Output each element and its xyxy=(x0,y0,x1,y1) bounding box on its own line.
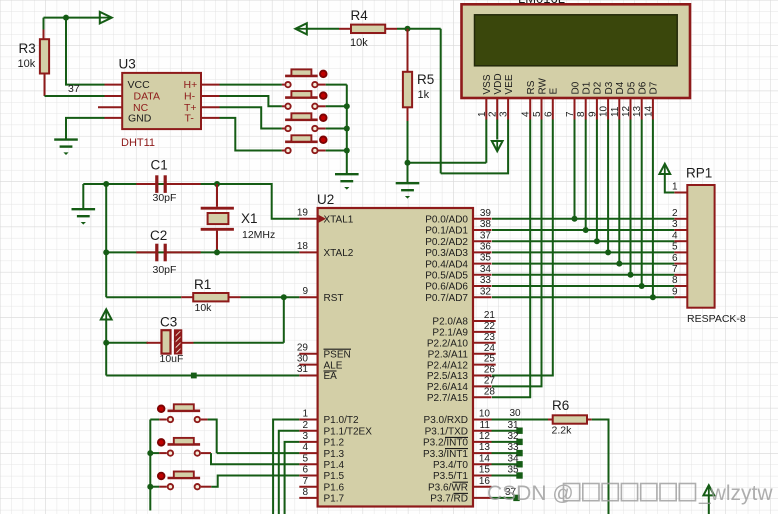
wire to ground stub xyxy=(82,184,84,209)
pushbutton lower 2 xyxy=(158,438,200,456)
pin LCD 14 xyxy=(652,98,654,120)
wire upper button 2 to bus xyxy=(326,105,347,107)
junction D2/P0.2 xyxy=(594,238,600,244)
svg-text:24: 24 xyxy=(484,343,496,354)
svg-text:21: 21 xyxy=(484,310,496,321)
svg-text:15: 15 xyxy=(479,465,491,476)
svg-text:P0.6/AD6: P0.6/AD6 xyxy=(425,282,468,293)
svg-text:P3.6/WR: P3.6/WR xyxy=(428,482,468,493)
pin U3 DATA xyxy=(105,95,123,97)
pin R3 bottom xyxy=(44,74,46,97)
svg-text:R1: R1 xyxy=(194,277,211,292)
wire power stub bottom right xyxy=(708,495,710,514)
pin U2 P0.1/AD1 xyxy=(473,229,492,231)
MCU U2 body xyxy=(318,208,473,507)
resistor pack RP1 RESPACK-8 body xyxy=(687,185,714,308)
pin U2 RST xyxy=(299,296,317,298)
pin U3 GND xyxy=(105,117,123,119)
pin U3 NC xyxy=(98,106,122,108)
svg-text:D2: D2 xyxy=(593,81,604,94)
junction top-left xyxy=(63,15,69,21)
svg-text:31: 31 xyxy=(508,420,520,431)
wire C2 row to XTAL2 xyxy=(106,251,299,253)
pin RP1 9 xyxy=(674,296,687,298)
power terminal VDD (down arrow) xyxy=(492,141,503,151)
power terminal (left arrow) at R4 xyxy=(295,23,306,34)
pin U2 P2.4/A12 xyxy=(473,364,496,366)
svg-text:RW: RW xyxy=(537,77,548,94)
wire LCD RS to U2 P2.7 xyxy=(492,120,530,398)
watermark CSDN xyxy=(487,482,773,505)
pushbutton upper 4 xyxy=(285,135,327,153)
pin lower button 3 left lead xyxy=(159,486,167,488)
wire P1.0 down off-page xyxy=(273,420,299,515)
svg-text:P3.4/T0: P3.4/T0 xyxy=(433,460,468,471)
svg-text:1: 1 xyxy=(302,409,308,420)
svg-text:R4: R4 xyxy=(351,8,369,23)
capacitor C2 xyxy=(136,244,200,262)
svg-text:25: 25 xyxy=(484,354,496,365)
svg-text:4: 4 xyxy=(302,442,308,453)
power terminal (up arrow) bottom right xyxy=(703,485,714,495)
pin U2 P3.1/TXD xyxy=(473,430,492,432)
pin U3 T+ xyxy=(201,106,220,108)
svg-text:R5: R5 xyxy=(417,72,434,87)
LCD LCD1 LM016L body xyxy=(462,4,691,98)
pin upper button 1 right lead xyxy=(318,84,326,86)
svg-text:VDD: VDD xyxy=(493,73,504,94)
svg-text:U3: U3 xyxy=(119,57,136,72)
wire RST riser to C3 xyxy=(283,297,285,343)
svg-text:P0.5/AD5: P0.5/AD5 xyxy=(425,271,468,282)
svg-text:32: 32 xyxy=(480,286,492,297)
wire R4 to LCD VEE net xyxy=(397,28,441,30)
svg-text:RST: RST xyxy=(324,293,344,304)
pin U2 P0.7/AD7 xyxy=(473,296,492,298)
pin LCD 8 xyxy=(585,98,587,120)
svg-text:P1.2: P1.2 xyxy=(324,438,345,449)
pin U2 P2.7/A15 xyxy=(473,396,492,398)
pin upper button 4 right lead xyxy=(318,150,326,152)
ground left of C1 xyxy=(72,209,96,216)
pin upper button 3 right lead xyxy=(318,128,326,130)
svg-text:26: 26 xyxy=(484,365,496,376)
pin RP1 2 xyxy=(674,218,687,220)
pin U2 P1.1/T2EX xyxy=(299,430,317,432)
pin RP1 7 xyxy=(674,274,687,276)
junction C2 row xyxy=(103,249,109,255)
wire VEE vertical to R4 xyxy=(440,29,442,174)
svg-text:P0.2/AD2: P0.2/AD2 xyxy=(425,237,468,248)
svg-text:P3.0/RXD: P3.0/RXD xyxy=(424,415,468,426)
junction D0/P0.0 xyxy=(572,216,578,222)
overline EA xyxy=(324,370,337,372)
svg-text:D6: D6 xyxy=(638,81,649,94)
svg-text:P3.1/TXD: P3.1/TXD xyxy=(425,426,468,437)
svg-text:P1.4: P1.4 xyxy=(324,460,345,471)
wire P1.2 down off-page xyxy=(285,442,300,514)
pin U2 P3.7/RD xyxy=(473,497,492,499)
power terminal (up arrow) RP1 xyxy=(659,164,670,174)
dangling wire end P3.7 xyxy=(513,495,519,501)
pin U2 P2.6/A14 xyxy=(473,385,492,387)
pin LCD 3 xyxy=(507,98,509,120)
wire lower button bus xyxy=(149,420,151,511)
wire H+ to button xyxy=(220,84,282,86)
svg-text:P2.3/A11: P2.3/A11 xyxy=(428,349,469,360)
svg-text:RS: RS xyxy=(526,80,537,94)
svg-text:CSDN @: CSDN @ xyxy=(487,482,574,505)
pin U2 P2.2/A10 xyxy=(473,342,496,344)
pin U2 P1.3 xyxy=(299,452,317,454)
wire button3 to P1.5 xyxy=(211,476,299,487)
pin R6 right xyxy=(587,419,592,421)
dangling wire end P3.5 xyxy=(516,472,522,478)
junction R5/VSS/ground xyxy=(405,160,411,166)
wire P0.2 row xyxy=(492,240,674,242)
pin U2 P3.2/INT0 xyxy=(473,441,492,443)
svg-text:34: 34 xyxy=(480,264,492,275)
svg-text:XTAL2: XTAL2 xyxy=(324,248,354,259)
ground below button bus xyxy=(335,174,359,181)
pin LCD 7 xyxy=(574,98,576,120)
svg-text:36: 36 xyxy=(480,242,492,253)
wire R5 to VSS net xyxy=(407,121,409,163)
wire bus to lower button 1 xyxy=(150,419,159,421)
wire left vertical C1-C2-R1 xyxy=(105,184,107,297)
svg-text:C1: C1 xyxy=(151,158,168,173)
svg-text:6: 6 xyxy=(672,253,678,264)
wire upper button 1 to bus xyxy=(326,84,347,86)
pin U2 P3.4/T0 xyxy=(473,463,492,465)
wire to EA xyxy=(106,375,299,377)
dangling wire end P3.1 xyxy=(516,428,522,434)
wire P3.3 stub xyxy=(492,452,518,454)
svg-text:DHT11: DHT11 xyxy=(121,137,155,149)
pin U2 P0.0/AD0 xyxy=(473,218,492,220)
wire button1 to P1.3 row xyxy=(208,420,217,454)
wire to R1 xyxy=(106,296,181,298)
svg-text:P2.1/A9: P2.1/A9 xyxy=(432,328,468,339)
pushbutton lower 1 xyxy=(158,404,200,422)
pin U2 P0.5/AD5 xyxy=(473,274,492,276)
wire LCD D4 vertical xyxy=(618,120,620,264)
pin RP1 1 xyxy=(674,192,687,194)
wire P3.4 stub xyxy=(492,463,518,465)
pin LCD 1 xyxy=(485,98,487,120)
svg-text:1k: 1k xyxy=(418,89,430,101)
pin U2 PSEN xyxy=(299,353,317,355)
svg-text:P3.7/RD: P3.7/RD xyxy=(430,494,468,505)
wire LCD D2 vertical xyxy=(596,120,598,242)
wire C3 to riser xyxy=(194,342,284,344)
svg-text:T-: T- xyxy=(185,113,195,125)
wire P3.7 stub xyxy=(492,497,515,499)
pin U2 P1.5 xyxy=(299,475,317,477)
svg-text:D7: D7 xyxy=(649,81,660,94)
pin lower button 1 left lead xyxy=(159,419,167,421)
pin LCD 9 xyxy=(596,98,598,120)
pin U3 T- xyxy=(201,117,220,119)
pin lower button1 right lead xyxy=(201,419,208,421)
pin lower button3 right lead xyxy=(201,486,211,488)
svg-text:35: 35 xyxy=(480,253,492,264)
svg-text:P3.2/INT0: P3.2/INT0 xyxy=(423,438,468,449)
pin upper button 4 left lead xyxy=(282,150,285,152)
wire T- to button xyxy=(220,118,282,151)
pushbutton upper 2 xyxy=(285,91,327,109)
pin U2 P1.7 xyxy=(299,497,317,499)
wire upper button ground bus xyxy=(346,85,348,175)
svg-text:P1.6: P1.6 xyxy=(324,482,345,493)
svg-text:P0.1/AD1: P0.1/AD1 xyxy=(425,226,468,237)
svg-text:7: 7 xyxy=(302,476,308,487)
svg-text:P1.0/T2: P1.0/T2 xyxy=(324,415,359,426)
wire P3.5 stub xyxy=(492,475,518,477)
junction R4/R5 xyxy=(405,26,411,32)
svg-text:10: 10 xyxy=(479,409,491,420)
pin LCD 13 xyxy=(641,98,643,120)
svg-text:RESPACK-8: RESPACK-8 xyxy=(687,313,746,325)
svg-text:P3.5/T1: P3.5/T1 xyxy=(433,471,468,482)
svg-text:LM016L: LM016L xyxy=(518,0,565,6)
svg-text:P2.4/A12: P2.4/A12 xyxy=(427,360,469,371)
wire P3.2 stub xyxy=(492,441,518,443)
pin lower button2 right lead xyxy=(201,452,211,454)
wire LCD VDD down xyxy=(496,120,498,140)
svg-text:P1.1/T2EX: P1.1/T2EX xyxy=(324,426,373,437)
svg-text:P0.7/AD7: P0.7/AD7 xyxy=(425,293,468,304)
pin U2 XTAL1 xyxy=(299,218,317,220)
svg-text:3: 3 xyxy=(672,219,678,230)
junction bus/button2 xyxy=(344,103,350,109)
wire P0.6 row xyxy=(492,285,674,287)
svg-text:2: 2 xyxy=(302,420,308,431)
wire P0.0 row xyxy=(492,218,674,220)
svg-text:38: 38 xyxy=(480,219,492,230)
pin LCD 2 xyxy=(496,98,498,120)
svg-text:23: 23 xyxy=(484,332,496,343)
wire P3.0 to R6 xyxy=(492,419,549,421)
resistor R1 xyxy=(193,293,228,301)
wire arrow to C3 row and EA row xyxy=(105,320,107,376)
wire P0.1 row xyxy=(492,229,674,231)
junction RST/C3 xyxy=(281,294,287,300)
svg-text:P3.3/INT1: P3.3/INT1 xyxy=(423,449,468,460)
pin U2 P1.4 xyxy=(299,463,317,465)
junction square on EA wire xyxy=(191,373,197,379)
svg-text:H+: H+ xyxy=(184,79,198,91)
svg-text:D1: D1 xyxy=(582,81,593,94)
pin LCD 4 xyxy=(529,98,531,120)
pin U2 ALE xyxy=(299,364,317,366)
svg-text:P0.0/AD0: P0.0/AD0 xyxy=(425,215,468,226)
svg-text:19: 19 xyxy=(297,208,309,219)
overline PSEN xyxy=(324,348,352,350)
svg-text:10k: 10k xyxy=(350,37,368,49)
svg-text:DATA: DATA xyxy=(134,91,160,103)
pin U2 P3.3/INT1 xyxy=(473,452,492,454)
svg-text:30: 30 xyxy=(510,408,522,419)
wire C1 row to XTAL1 xyxy=(83,184,299,219)
wire R1 to RST xyxy=(241,296,300,298)
ground below U3 xyxy=(54,140,78,147)
pin R4 right xyxy=(385,28,397,30)
svg-text:9: 9 xyxy=(672,286,678,297)
svg-text:30: 30 xyxy=(297,353,309,364)
wire bus to lower button 2 xyxy=(150,452,159,454)
svg-text:P2.5/A13: P2.5/A13 xyxy=(427,371,469,382)
pin U2 P0.2/AD2 xyxy=(473,240,492,242)
resistor R5 xyxy=(403,72,412,108)
svg-text:12: 12 xyxy=(479,431,491,442)
overline INT0 xyxy=(445,436,468,438)
svg-text:U2: U2 xyxy=(317,192,334,207)
svg-text:9: 9 xyxy=(302,286,308,297)
wire P3.1 stub xyxy=(492,430,518,432)
svg-text:32: 32 xyxy=(508,431,520,442)
junction bus/lower button3 xyxy=(147,484,153,490)
junction X1 top xyxy=(214,181,220,187)
svg-text:8: 8 xyxy=(302,487,308,498)
pin U2 P0.6/AD6 xyxy=(473,285,492,287)
wire junction to ground xyxy=(407,163,409,183)
svg-text:RP1: RP1 xyxy=(686,166,712,181)
wire P0.4 row xyxy=(492,263,674,265)
power terminal VCC (right arrow) xyxy=(100,12,112,24)
pin U3 H+ xyxy=(201,84,220,86)
svg-text:34: 34 xyxy=(508,453,520,464)
pin R1 right xyxy=(229,296,241,298)
wire H- to button xyxy=(220,96,282,106)
wire to LCD VSS xyxy=(408,162,487,164)
svg-text:5: 5 xyxy=(672,242,678,253)
wire T+ to button xyxy=(220,107,282,128)
svg-text:VCC: VCC xyxy=(128,79,151,91)
svg-text:33: 33 xyxy=(508,442,520,453)
wire U3 GND to ground xyxy=(66,118,105,140)
junction bus/lower button2 xyxy=(147,450,153,456)
sensor U3 DHT11 xyxy=(122,73,201,129)
svg-text:XTAL1: XTAL1 xyxy=(324,215,354,226)
pin RP1 3 xyxy=(674,229,687,231)
wire LCD RW to U2 P2.6 xyxy=(492,120,542,387)
junction D4/P0.4 xyxy=(616,261,622,267)
svg-text:13: 13 xyxy=(479,442,491,453)
svg-text:3: 3 xyxy=(302,431,308,442)
dangling wire end P3.3 xyxy=(516,450,522,456)
wire LCD D5 vertical xyxy=(630,120,632,275)
wire LCD D6 vertical xyxy=(641,120,643,287)
junction D1/P0.1 xyxy=(583,227,589,233)
power terminal (up arrow) near C3 xyxy=(101,309,112,319)
pin upper button 3 left lead xyxy=(282,128,285,130)
svg-text:D3: D3 xyxy=(604,81,615,94)
svg-text:P1.7: P1.7 xyxy=(324,494,345,505)
wire P1.1 down off-page xyxy=(279,431,300,514)
wire arrow to R4 xyxy=(307,28,339,30)
pin upper button 2 right lead xyxy=(318,105,326,107)
dangling wire end P3.4 xyxy=(516,461,522,467)
svg-text:H-: H- xyxy=(184,91,196,103)
svg-text:37: 37 xyxy=(68,83,80,95)
pin R1 left xyxy=(181,296,193,298)
wire LCD VSS down xyxy=(485,120,487,163)
svg-text:8: 8 xyxy=(672,275,678,286)
wire LCD D1 vertical xyxy=(585,120,587,231)
svg-text:29: 29 xyxy=(297,342,309,353)
pin R3 top xyxy=(43,30,45,40)
pin U3 VCC xyxy=(105,84,123,86)
junction D3/P0.3 xyxy=(605,249,611,255)
resistor R3 xyxy=(40,39,49,73)
pin U2 P0.3/AD3 xyxy=(473,251,492,253)
resistor R6 xyxy=(553,415,587,423)
wire LCD VEE left xyxy=(441,120,508,174)
pin LCD 11 xyxy=(618,98,620,120)
pin RP1 5 xyxy=(674,251,687,253)
svg-text:E: E xyxy=(549,88,560,95)
svg-text:10uF: 10uF xyxy=(160,353,184,365)
svg-text:P2.7/A15: P2.7/A15 xyxy=(427,393,469,404)
svg-text:30pF: 30pF xyxy=(153,192,177,204)
junction D6/P0.6 xyxy=(639,283,645,289)
pin U2 P3.5/T1 xyxy=(473,475,492,477)
svg-text:P2.6/A14: P2.6/A14 xyxy=(427,382,469,393)
wire R6 down off-page xyxy=(592,420,609,515)
pin LCD 6 xyxy=(552,98,554,120)
svg-text:35: 35 xyxy=(508,465,520,476)
pin LCD 10 xyxy=(607,98,609,120)
svg-text:14: 14 xyxy=(479,453,491,464)
svg-text:10k: 10k xyxy=(195,302,213,314)
svg-text:P2.2/A10: P2.2/A10 xyxy=(427,339,469,350)
wire R3 top vertical xyxy=(43,18,45,31)
svg-text:1: 1 xyxy=(672,182,678,193)
svg-text:D4: D4 xyxy=(615,81,626,94)
pin RP1 8 xyxy=(674,285,687,287)
svg-text:5: 5 xyxy=(302,453,308,464)
svg-text:P0.4/AD4: P0.4/AD4 xyxy=(425,259,468,270)
LCD screen area xyxy=(475,15,678,66)
capacitor C1 xyxy=(136,175,200,193)
pin U2 P3.0/RXD xyxy=(473,419,492,421)
pushbutton lower 3 xyxy=(158,472,200,490)
wire button2 to P1.4 xyxy=(211,453,299,464)
junction C1 row xyxy=(103,181,109,187)
pin U2 EA xyxy=(299,375,317,377)
svg-text:30pF: 30pF xyxy=(153,264,177,276)
pushbutton upper 1 xyxy=(285,69,327,87)
svg-text:6: 6 xyxy=(302,465,308,476)
svg-text:P0.3/AD3: P0.3/AD3 xyxy=(425,248,468,259)
dangling wire end P3.2 xyxy=(516,439,522,445)
wire bus to lower button 3 xyxy=(150,486,159,488)
pin U2 XTAL2 xyxy=(299,251,317,253)
svg-text:22: 22 xyxy=(484,321,496,332)
pin upper button 2 left lead xyxy=(282,105,285,107)
pin U2 P2.0/A8 xyxy=(473,320,496,322)
overline WR xyxy=(453,481,469,483)
pin R6 left xyxy=(548,419,553,421)
pin U2 P2.3/A11 xyxy=(473,353,496,355)
pin R5 bottom xyxy=(407,107,409,121)
svg-text:12MHz: 12MHz xyxy=(242,229,275,241)
wire LCD D7 vertical xyxy=(652,120,654,298)
pin R5 top xyxy=(407,29,409,72)
wire upper button 3 to bus xyxy=(326,128,347,130)
svg-text:R3: R3 xyxy=(19,41,36,56)
